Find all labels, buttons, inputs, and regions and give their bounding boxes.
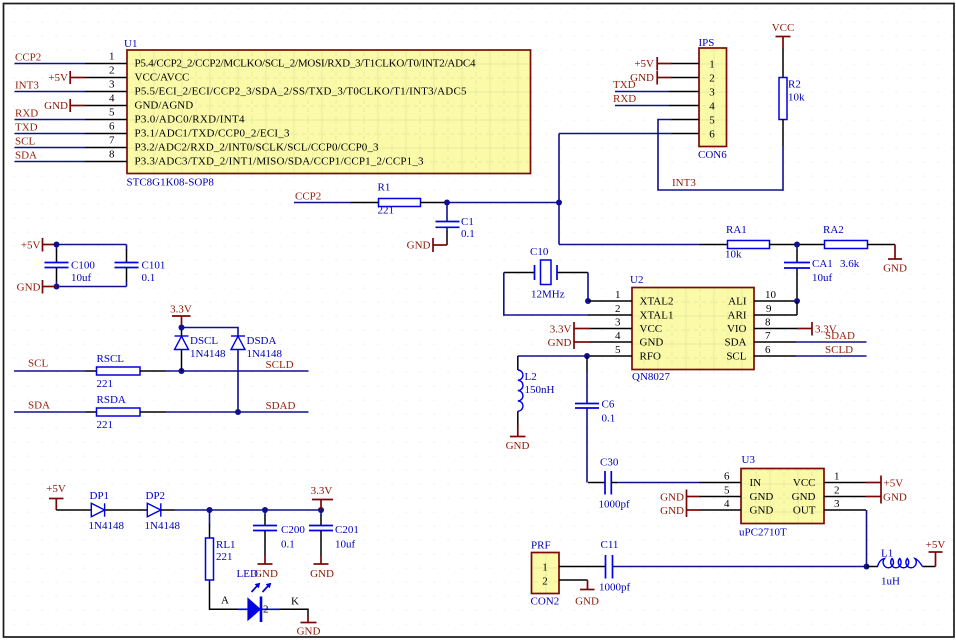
U2 pin 3 [590,317,632,329]
U1 part number label [127,177,215,189]
svg-text:GND: GND [750,491,774,503]
svg-text:SDAD: SDAD [266,400,296,412]
power +5V at C100 rail [21,238,57,252]
ground GND at U3 pin4 [660,504,699,518]
ground GND below LED [297,616,321,638]
svg-text:STC8G1K08-SOP8: STC8G1K08-SOP8 [127,177,215,189]
svg-text:U3: U3 [742,454,756,466]
svg-text:SCLD: SCLD [825,344,853,356]
svg-text:2: 2 [109,65,115,77]
wire SDA to U1 pin8 [15,150,86,162]
svg-text:XTAL1: XTAL1 [640,310,674,322]
svg-text:SCL: SCL [15,136,35,148]
wire SCLD from U2 pin6 [796,344,867,356]
svg-text:0.1: 0.1 [461,228,475,240]
resistor RA1 [725,224,770,261]
svg-text:GND: GND [17,282,41,294]
capacitor C101 [115,245,166,287]
svg-text:RXD: RXD [613,93,636,105]
junction at CA1 tap [794,242,800,248]
U1 pin 4 [85,93,127,106]
power 3.3V at U2 pin3 [550,322,590,336]
U3 pin 1 [824,471,866,483]
ground GND below C1 [407,238,447,252]
svg-text:8: 8 [109,149,115,161]
svg-text:ALI: ALI [728,296,747,308]
IPS pin 5 [672,119,700,121]
svg-text:GND: GND [640,337,664,349]
junction at U2 pin1 [585,298,591,304]
svg-text:GND: GND [44,100,68,112]
wire C11 to L1 node [613,566,867,568]
ground GND at U2 pin4 [548,336,590,350]
ground GND below C201 [310,556,334,580]
wire INT3 from IPS pin5 down to R2 [658,120,783,191]
U2 pin 7 [754,330,796,342]
LED D1 [221,568,299,622]
svg-text:C11: C11 [601,539,619,551]
svg-text:CCP2: CCP2 [15,52,41,64]
svg-text:0.1: 0.1 [281,539,295,551]
svg-text:9: 9 [766,303,772,315]
svg-text:C6: C6 [602,399,615,411]
svg-text:1N4148: 1N4148 [145,520,181,532]
U1 pin 5 [85,107,127,120]
svg-text:10k: 10k [788,92,805,104]
U3 pin 5 [700,485,742,497]
svg-text:+5V: +5V [926,539,946,551]
svg-text:P3.3/ADC3/TXD_2/INT1/MISO/SDA/: P3.3/ADC3/TXD_2/INT1/MISO/SDA/CCP1/CCP1_… [135,156,425,168]
capacitor C1 [436,203,475,246]
svg-text:4: 4 [709,101,715,113]
svg-text:SCLD: SCLD [266,359,294,371]
svg-text:1: 1 [109,51,115,63]
IC U2 body QN8027 [632,288,754,370]
svg-text:PRF: PRF [531,540,551,552]
wire crystal left leg to U2 XTAL1 [504,273,588,316]
svg-text:VCC: VCC [640,323,663,335]
svg-text:+5V: +5V [48,72,68,84]
IPS pin 4 [669,105,699,107]
U2 pin 6 [754,344,796,356]
wire SCL to U1 pin7 [15,136,86,148]
svg-text:R1: R1 [378,182,391,194]
wire node A vertical [558,134,560,245]
ground GND below C200 [254,556,278,580]
wire RA2 to ground [868,244,896,246]
wire DP1 to DP2 [105,509,148,511]
svg-text:+5V: +5V [884,478,904,490]
svg-text:L1: L1 [881,548,893,560]
resistor RA2 [823,224,868,270]
svg-text:ARI: ARI [728,310,747,322]
svg-text:1N4148: 1N4148 [190,348,226,360]
wire INT3 to U1 pin3 [15,80,86,92]
U1 pin 7 [85,135,127,148]
svg-text:2: 2 [263,604,269,616]
svg-text:3: 3 [709,87,715,99]
power 3.3V at U2 pin8 [797,322,837,336]
inductor L2 [518,356,555,426]
svg-text:INT3: INT3 [672,177,696,189]
connector PRF body CON2 [532,553,560,594]
svg-text:4: 4 [724,498,730,510]
svg-text:SDA: SDA [724,337,746,349]
junction +5V rail [54,242,60,248]
svg-text:GND/AGND: GND/AGND [135,100,194,112]
svg-text:XTAL2: XTAL2 [640,296,674,308]
svg-text:P3.1/ADC1/TXD/CCP0_2/ECI_3: P3.1/ADC1/TXD/CCP0_2/ECI_3 [135,128,291,140]
PRF pin 2 [559,579,588,581]
U2 pin 1 [588,289,632,301]
IC U3 body uPC2710T [741,469,824,524]
svg-text:TXD: TXD [15,122,38,134]
svg-text:5: 5 [709,115,715,127]
junction DSCL anode [179,368,185,374]
svg-text:CON6: CON6 [698,149,727,161]
svg-text:RSCL: RSCL [97,353,125,365]
svg-text:4: 4 [109,93,115,105]
svg-text:DP1: DP1 [90,490,110,502]
junction at L1 node [864,564,870,570]
U1 pin 6 [85,121,127,134]
svg-text:GND: GND [297,626,321,638]
crystal C10 [504,246,588,301]
wire DP2 to 3.3V node [161,509,321,511]
svg-text:K: K [291,596,299,608]
svg-text:1uH: 1uH [881,576,900,588]
power +5V at L1 [926,539,946,567]
svg-text:3: 3 [834,498,840,510]
ground GND at U3 pin2 [866,490,907,504]
capacitor C6 [575,356,615,483]
svg-text:0.1: 0.1 [142,272,156,284]
junction C200 tap [262,507,268,513]
wire +5V rail [57,244,127,246]
U1 pin 2 [85,65,127,78]
power +5V at U3 pin1 [866,476,903,490]
svg-text:1000pf: 1000pf [599,499,631,511]
connector PRF designator [531,540,551,552]
wire node A to RA1 [559,244,728,246]
diode DP1 1N4148 [89,490,125,532]
svg-text:SCL: SCL [28,358,48,370]
wire R1 to node A [421,202,560,204]
svg-text:DSCL: DSCL [190,335,218,347]
ground GND at C100 rail [17,280,57,294]
wire GND rail [57,286,127,288]
svg-text:GND: GND [883,263,907,275]
svg-text:C201: C201 [335,524,359,536]
junction RL1 tap [207,507,213,513]
U2 pin 10 [754,289,797,301]
U2 pin 8 [754,317,797,329]
wire U2 pin9 up to pin10 node [796,301,798,315]
junction 3.3V node [179,325,185,331]
U2 pin 5 [588,344,632,356]
svg-text:10uf: 10uf [335,539,356,551]
svg-text:GND: GND [750,505,774,517]
svg-text:RL1: RL1 [216,539,236,551]
wire +5V to DP1 [56,509,91,511]
power +5V at IPS pin1 [634,57,671,71]
wire VCC to R2 [782,48,784,78]
junction C201 tap [318,507,324,513]
svg-text:3.3V: 3.3V [311,485,333,497]
svg-text:GND: GND [575,596,599,608]
svg-text:+5V: +5V [46,483,66,495]
svg-text:2: 2 [834,485,840,497]
svg-text:P5.4/CCP2_2/CCP2/MCLKO/SCL_2/M: P5.4/CCP2_2/CCP2/MCLKO/SCL_2/MOSI/RXD_3/… [135,58,477,70]
svg-text:4: 4 [615,330,621,342]
svg-text:SDAD: SDAD [825,330,855,342]
U2 pin 4 [590,330,632,342]
wire LED cathode to ground [280,609,308,615]
svg-text:2: 2 [542,576,548,588]
svg-text:GND: GND [548,337,572,349]
svg-text:SDA: SDA [28,400,50,412]
svg-text:2: 2 [615,303,621,315]
capacitor C200 [253,510,305,556]
svg-text:RFO: RFO [640,351,661,363]
svg-text:VIO: VIO [727,323,747,335]
svg-text:0.1: 0.1 [602,413,616,425]
ground GND right of RA2 [883,245,907,275]
power VCC [772,22,795,48]
resistor R2 [779,78,805,120]
svg-text:+5V: +5V [634,58,654,70]
wire R2 to INT3 net [782,120,784,191]
svg-text:C30: C30 [600,457,619,469]
svg-text:INT3: INT3 [15,80,39,92]
resistor RSDA [97,394,141,431]
svg-text:221: 221 [216,551,233,563]
IC U1 body STC8G1K08-SOP8 [127,50,531,174]
svg-text:GND: GND [660,505,684,517]
svg-text:5: 5 [724,485,730,497]
junction GND rail [54,284,60,290]
PRF pin 1 [559,566,606,568]
svg-text:10uf: 10uf [812,272,833,284]
U1 pin 8 [85,149,127,162]
U3 part label uPC2710T [739,527,787,539]
svg-text:7: 7 [765,330,771,342]
resistor R1 [378,182,421,217]
wire SDAD from U2 pin7 [796,330,867,342]
svg-text:1: 1 [615,289,621,301]
svg-text:RSDA: RSDA [97,394,126,406]
svg-text:6: 6 [765,344,771,356]
connector IPS designator [699,37,715,49]
wire RFO to L2 [518,355,588,357]
wire SCL left segment [14,358,97,372]
IPS part label CON6 [698,149,727,161]
svg-text:221: 221 [97,419,114,431]
svg-text:VCC: VCC [772,22,795,34]
IPS pin 3 [669,91,699,93]
U2 pin 2 [588,303,632,315]
svg-text:3: 3 [109,79,115,91]
svg-text:C200: C200 [281,524,305,536]
svg-text:2: 2 [709,73,715,85]
inductor L1 [867,548,936,588]
svg-text:5: 5 [615,344,621,356]
svg-text:C10: C10 [530,246,549,258]
svg-text:150nH: 150nH [525,384,555,396]
svg-text:CON2: CON2 [531,596,560,608]
U3 pin 2 [824,485,866,497]
svg-text:R2: R2 [788,79,801,91]
svg-text:SDA: SDA [15,150,37,162]
connector IPS body CON6 [699,48,727,147]
svg-text:DP2: DP2 [146,490,166,502]
svg-text:P3.2/ADC2/RXD_2/INT0/SCLK/SCL/: P3.2/ADC2/RXD_2/INT0/SCLK/SCL/CCP0/CCP0_… [135,142,380,154]
svg-text:VCC: VCC [793,477,816,489]
svg-text:1000pf: 1000pf [599,582,631,594]
svg-text:C101: C101 [142,260,166,272]
resistor RL1 [206,510,236,580]
svg-text:GND: GND [883,492,907,504]
IPS pin 6 [672,133,700,135]
svg-text:GND: GND [407,240,431,252]
ground GND at U3 pin5 [660,490,699,504]
svg-text:DSDA: DSDA [247,335,277,347]
wire crystal right leg to U2 XTAL2 [587,273,589,302]
svg-text:SCL: SCL [726,351,746,363]
U1 pin 1 [85,51,127,64]
power +5V at U1 pin2 [48,71,85,84]
svg-text:LED: LED [237,568,258,580]
wire CCP2 to R1 [294,191,379,203]
ground GND at IPS pin2 [630,71,671,85]
U3 pin 3 [824,498,866,510]
wire RL1 to LED anode [210,580,239,609]
IPS pin 2 [671,77,699,79]
wire SCLD right segment [140,359,309,371]
svg-text:10: 10 [765,289,777,301]
svg-text:6: 6 [109,121,115,133]
svg-text:U1: U1 [124,38,137,50]
svg-text:GND: GND [310,568,334,580]
PRF part label CON2 [531,596,560,608]
svg-text:RA1: RA1 [726,224,747,236]
IPS pin 1 [671,63,699,65]
svg-text:1N4148: 1N4148 [89,520,125,532]
wire SDA left segment [14,400,97,413]
capacitor CA1 [784,245,833,302]
ground GND at PRF pin2 [575,580,599,608]
svg-text:6: 6 [724,471,730,483]
power 3.3V above DSCL [170,304,192,328]
U1 pin 3 [85,79,127,92]
svg-text:1: 1 [834,471,840,483]
diode DSDA 1N4148 [231,335,282,412]
IC U3 designator [742,454,756,466]
ground GND below L2 [506,425,530,452]
svg-text:RXD: RXD [15,108,38,120]
capacitor C30 [588,457,700,511]
svg-text:C1: C1 [461,216,474,228]
svg-text:P5.5/ECI_2/ECI/CCP2_3/SDA_2/SS: P5.5/ECI_2/ECI/CCP2_3/SDA_2/SS/TXD_3/T0C… [135,86,468,98]
svg-text:P3.0/ADC0/RXD/INT4: P3.0/ADC0/RXD/INT4 [135,114,246,126]
junction at C1 tap [444,200,450,206]
svg-text:uPC2710T: uPC2710T [739,527,787,539]
svg-text:1: 1 [709,59,715,71]
wire from node A to IPS pin6 [559,133,672,135]
diode DSCL 1N4148 [175,328,226,372]
svg-text:10uf: 10uf [71,272,92,284]
svg-text:CA1: CA1 [812,258,833,270]
resistor RSCL [97,353,141,390]
ground GND at U1 pin4 [44,99,85,112]
svg-text:GND: GND [506,440,530,452]
svg-text:10k: 10k [725,249,742,261]
wire RA1 to RA2 [770,244,825,246]
wire U3 OUT down to L1 node [866,510,868,567]
junction CA1 to U2 pin10 [794,298,800,304]
wire TXD to U1 pin6 [15,122,86,134]
U2 part label QN8027 [632,371,670,383]
U3 pin 4 [700,498,742,510]
U3 pin 6 [700,471,742,483]
node A junction [556,200,562,206]
wire RXD to U1 pin5 [15,108,86,120]
svg-text:L2: L2 [525,371,537,383]
svg-text:7: 7 [109,135,115,147]
svg-text:3.3V: 3.3V [170,304,192,316]
svg-text:1N4148: 1N4148 [247,348,283,360]
svg-text:GND: GND [792,491,816,503]
power +5V at DP1 [46,483,66,510]
svg-text:6: 6 [709,129,715,141]
U2 pin 9 [754,303,797,315]
power 3.3V at C201 [311,485,333,510]
svg-text:CCP2: CCP2 [295,191,321,203]
svg-text:A: A [221,595,229,607]
svg-text:5: 5 [109,107,115,119]
svg-text:8: 8 [765,317,771,329]
junction at U2 RFO [584,353,590,359]
wire TXD to IPS pin3 [613,79,669,92]
IC U2 designator [630,274,643,286]
svg-text:RA2: RA2 [823,224,844,236]
wire RXD to IPS pin4 [613,93,669,106]
svg-text:GND: GND [660,492,684,504]
svg-text:C100: C100 [71,260,95,272]
svg-text:U2: U2 [630,274,643,286]
svg-text:1: 1 [542,562,548,574]
svg-text:12MHz: 12MHz [531,289,565,301]
svg-text:IN: IN [750,477,762,489]
capacitor C11 [599,539,631,594]
svg-text:QN8027: QN8027 [632,371,670,383]
diode DP2 1N4148 [145,490,181,532]
svg-text:221: 221 [378,205,395,217]
capacitor C201 [309,510,359,556]
svg-text:3: 3 [615,317,621,329]
svg-text:OUT: OUT [793,505,816,517]
svg-text:221: 221 [97,378,114,390]
svg-text:VCC/AVCC: VCC/AVCC [135,72,190,84]
wire SDAD right segment [140,400,309,412]
capacitor C100 [45,245,96,287]
junction DSDA anode [235,409,241,415]
svg-text:+5V: +5V [21,240,41,252]
svg-text:3.3V: 3.3V [550,324,572,336]
svg-text:TXD: TXD [613,79,636,91]
svg-text:3.6k: 3.6k [840,258,860,270]
op-amp U1 designator [124,38,137,50]
